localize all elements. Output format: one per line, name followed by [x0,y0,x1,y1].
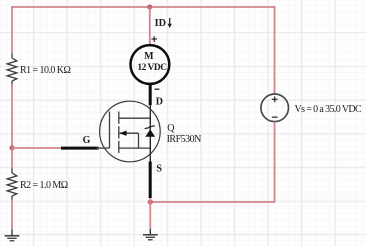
wire source to ground [149,198,151,229]
label G pin [83,135,91,146]
svg-text:ID: ID [155,18,166,29]
motor M1 [131,45,170,84]
label R2 value [20,180,68,191]
body diode cathode [145,126,155,129]
ground left [5,229,20,241]
wire top rail [11,6,275,8]
body diode triangle [145,129,155,136]
svg-text:12 VDC: 12 VDC [137,63,167,73]
motor minus sign [155,88,160,90]
mosfet gate lead thick [61,147,99,150]
mosfet source connect [119,147,151,149]
mosfet internal vertical [149,105,151,161]
svg-text:S: S [156,164,162,175]
wire left rail bottom [11,200,13,230]
label Vs value [295,104,363,115]
svg-text:Q: Q [167,123,175,134]
label R1 value [20,65,70,76]
label S pin [156,164,162,175]
wire left rail middle [11,85,13,148]
resistor R2 [7,168,17,199]
wire motor to drain lead [149,84,152,105]
label ID arrow [155,18,172,29]
svg-text:D: D [156,97,163,108]
node gate junction [9,145,14,150]
mosfet drain connect [119,117,151,119]
wire gate branch [12,147,61,149]
svg-text:R1 = 10.0 KΩ: R1 = 10.0 KΩ [20,65,70,76]
wire right rail upper [274,6,276,94]
source Vs [261,94,289,122]
wire left rail lower [11,148,13,168]
mosfet body circle [100,101,161,162]
ground center [143,229,158,240]
svg-text:M: M [144,51,154,62]
svg-text:R2 = 1.0 MΩ: R2 = 1.0 MΩ [20,180,68,191]
label D pin [156,97,163,108]
svg-text:Vs = 0 a 35.0 VDC: Vs = 0 a 35.0 VDC [295,104,363,115]
mosfet gate lead thin [96,147,110,149]
wire motor branch [149,7,151,45]
mosfet channel segments [118,112,120,154]
node source junction [148,199,153,204]
node top junction [147,4,152,9]
wire left rail upper [11,6,13,53]
svg-text:G: G [83,135,91,146]
mosfet source lead thick [149,162,152,199]
label Q designator [167,123,175,134]
motor plus sign [152,36,158,42]
transistor Q IRF530N [61,101,160,162]
mosfet substrate arrow [119,131,138,149]
resistor R1 [7,53,17,84]
mosfet gate bar [109,112,111,149]
wire right rail lower [150,122,274,202]
label IRF530N [167,134,202,145]
svg-text:IRF530N: IRF530N [167,134,202,145]
